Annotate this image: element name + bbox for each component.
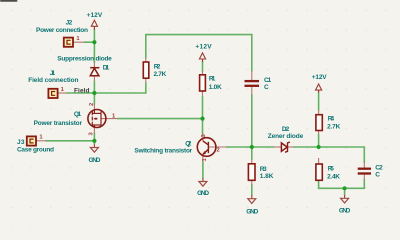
svg-text:2: 2 — [217, 148, 220, 154]
svg-text:Switching transistor: Switching transistor — [134, 147, 192, 154]
svg-text:1.0K: 1.0K — [209, 84, 222, 91]
svg-text:Suppression diode: Suppression diode — [57, 56, 112, 63]
svg-text:Power connection: Power connection — [36, 27, 88, 34]
svg-text:2.4K: 2.4K — [327, 174, 340, 181]
svg-text:R1: R1 — [209, 76, 216, 83]
svg-text:2.7K: 2.7K — [154, 71, 167, 78]
svg-text:Q2: Q2 — [185, 140, 192, 147]
svg-text:J2: J2 — [66, 19, 73, 26]
svg-text:J1: J1 — [50, 70, 56, 77]
svg-text:Q1: Q1 — [74, 111, 82, 118]
svg-text:C1: C1 — [264, 77, 272, 84]
svg-text:D1: D1 — [103, 65, 110, 72]
svg-text:GND: GND — [197, 190, 209, 197]
svg-text:GND: GND — [246, 209, 258, 216]
svg-text:+12V: +12V — [87, 12, 103, 19]
svg-text:J3: J3 — [17, 139, 25, 146]
svg-text:R5: R5 — [328, 165, 335, 172]
svg-text:2.7K: 2.7K — [327, 124, 340, 131]
svg-text:Zener diode: Zener diode — [268, 133, 304, 140]
svg-text:GND: GND — [89, 157, 101, 164]
svg-text:1.8K: 1.8K — [260, 173, 274, 180]
svg-text:+12V: +12V — [195, 43, 212, 50]
svg-text:D2: D2 — [282, 126, 290, 133]
svg-text:Case ground: Case ground — [17, 147, 54, 154]
svg-text:C: C — [264, 84, 269, 91]
svg-text:2: 2 — [89, 103, 95, 106]
svg-text:R4: R4 — [328, 116, 335, 123]
svg-text:GND: GND — [339, 208, 351, 215]
svg-text:+12V: +12V — [312, 74, 327, 81]
svg-text:R2: R2 — [154, 63, 161, 70]
svg-text:Field connection: Field connection — [28, 77, 78, 84]
svg-text:Field: Field — [74, 87, 90, 94]
svg-text:C: C — [375, 171, 380, 178]
svg-text:Power transistor: Power transistor — [34, 120, 83, 127]
